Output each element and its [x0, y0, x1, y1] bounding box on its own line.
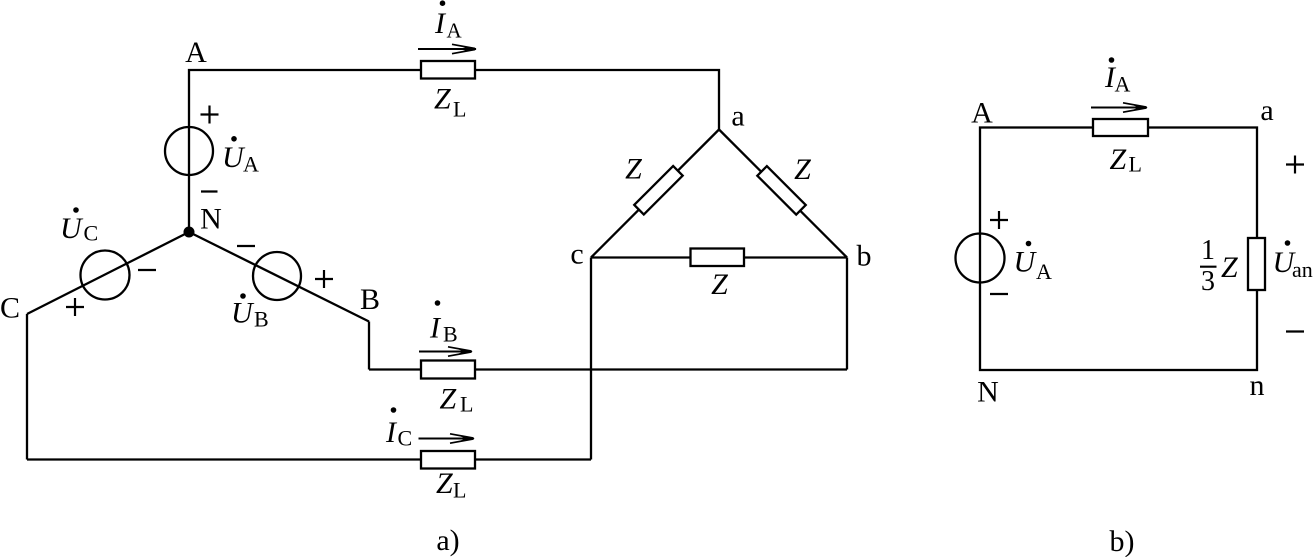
- resistor ZL2 phase B: [421, 361, 475, 379]
- svg-text:1: 1: [1201, 235, 1215, 266]
- svg-text:b): b): [1110, 525, 1135, 557]
- current arrow I_C: [419, 434, 476, 443]
- wire bottom phase C: [27, 458, 591, 460]
- label U_C phasor: [60, 207, 98, 245]
- resistor Z1 delta side c-a: [634, 166, 682, 214]
- wire delta side a-b: [719, 130, 847, 258]
- svg-text:Z: Z: [440, 383, 457, 416]
- svg-text:L: L: [460, 392, 473, 417]
- svg-text:A: A: [971, 97, 993, 130]
- wire c vertical: [590, 258, 592, 460]
- source U_C circle: [81, 251, 130, 300]
- label + of U_A: [201, 106, 219, 124]
- svg-text:3: 3: [1201, 266, 1215, 297]
- resistor ZL3 phase C: [421, 451, 475, 469]
- source U_B circle: [253, 252, 301, 300]
- svg-text:Z: Z: [1221, 251, 1238, 284]
- label - of U_A2: [990, 293, 1008, 295]
- svg-text:U: U: [231, 297, 255, 330]
- svg-text:U: U: [1014, 246, 1038, 279]
- label + of U_A2: [990, 211, 1008, 229]
- wire delta side c-b: [591, 256, 847, 258]
- label ZL2 value: [440, 383, 474, 417]
- wire top phase A: A corner to a drop: [189, 70, 719, 232]
- label U_A2 phasor: [1014, 241, 1053, 284]
- resistor ZL4 circuit b: [1093, 119, 1148, 136]
- svg-text:N: N: [977, 376, 999, 409]
- svg-text:A: A: [1115, 72, 1131, 97]
- label - of U_C: [138, 269, 156, 271]
- current arrow I_B: [419, 347, 473, 356]
- label ZL4 value: [1110, 143, 1142, 177]
- wire loop circuit b: [980, 128, 1257, 371]
- svg-text:A: A: [1036, 259, 1052, 284]
- svg-text:b: b: [857, 240, 872, 273]
- wire C corner down: [26, 314, 28, 460]
- label U_A phasor: [222, 136, 259, 177]
- node N junction dot: [184, 227, 195, 238]
- svg-text:C: C: [0, 292, 20, 325]
- svg-text:a: a: [731, 100, 744, 133]
- label + of U_an: [1286, 156, 1304, 174]
- svg-text:Z: Z: [711, 268, 728, 301]
- wire N to C corner: [27, 232, 189, 314]
- label I_A phasor: [434, 0, 463, 42]
- svg-text:L: L: [1129, 152, 1142, 177]
- resistor Z/3 circuit b: [1248, 238, 1265, 290]
- svg-text:N: N: [200, 203, 222, 236]
- svg-text:L: L: [453, 97, 466, 122]
- svg-text:Z: Z: [436, 467, 453, 500]
- wire B corner down: [368, 322, 370, 370]
- svg-text:Z: Z: [434, 83, 451, 116]
- label ZL1 value: [434, 83, 466, 122]
- svg-text:U: U: [60, 212, 84, 245]
- svg-text:an: an: [1292, 257, 1313, 282]
- svg-text:n: n: [1250, 369, 1265, 402]
- label I_B phasor: [429, 300, 458, 346]
- label + of U_C: [66, 298, 84, 316]
- label ZL3 value: [436, 467, 466, 503]
- label U_B phasor: [231, 293, 269, 331]
- wire N to B corner: [189, 232, 369, 322]
- label 1/3 Z value: [1200, 235, 1238, 297]
- label I_C phasor: [385, 407, 412, 450]
- svg-text:Z: Z: [625, 153, 642, 186]
- current arrow I_A circuit b: [1091, 103, 1148, 112]
- label - of U_A: [201, 190, 218, 192]
- svg-text:Z: Z: [794, 153, 811, 186]
- svg-text:Z: Z: [1110, 143, 1127, 176]
- svg-text:B: B: [360, 283, 380, 316]
- source U_A circle: [165, 127, 213, 175]
- svg-text:a: a: [1260, 94, 1273, 127]
- svg-text:C: C: [398, 426, 413, 451]
- svg-text:B: B: [443, 322, 458, 347]
- label I_A phasor circuit b: [1104, 57, 1131, 96]
- wire b vertical: [846, 258, 848, 370]
- wire delta side c-a: [591, 130, 719, 258]
- svg-text:a): a): [436, 524, 459, 557]
- label + of U_B: [315, 270, 333, 288]
- label - of U_an: [1286, 330, 1304, 332]
- source U_A2 circle circuit b: [956, 234, 1005, 283]
- svg-text:A: A: [447, 19, 463, 43]
- resistor Z3 delta side c-b: [691, 249, 745, 267]
- svg-text:C: C: [84, 221, 99, 246]
- resistor ZL1 phase A: [421, 61, 475, 79]
- svg-text:L: L: [453, 478, 466, 503]
- resistor Z2 delta side a-b: [757, 166, 805, 214]
- svg-text:A: A: [185, 36, 207, 69]
- label - of U_B: [237, 245, 255, 247]
- wire phase B horizontal: [369, 368, 847, 370]
- current arrow I_A: [418, 44, 477, 53]
- svg-text:A: A: [243, 152, 259, 177]
- svg-text:B: B: [254, 307, 269, 332]
- label U_an phasor: [1273, 240, 1313, 282]
- svg-text:c: c: [570, 238, 583, 271]
